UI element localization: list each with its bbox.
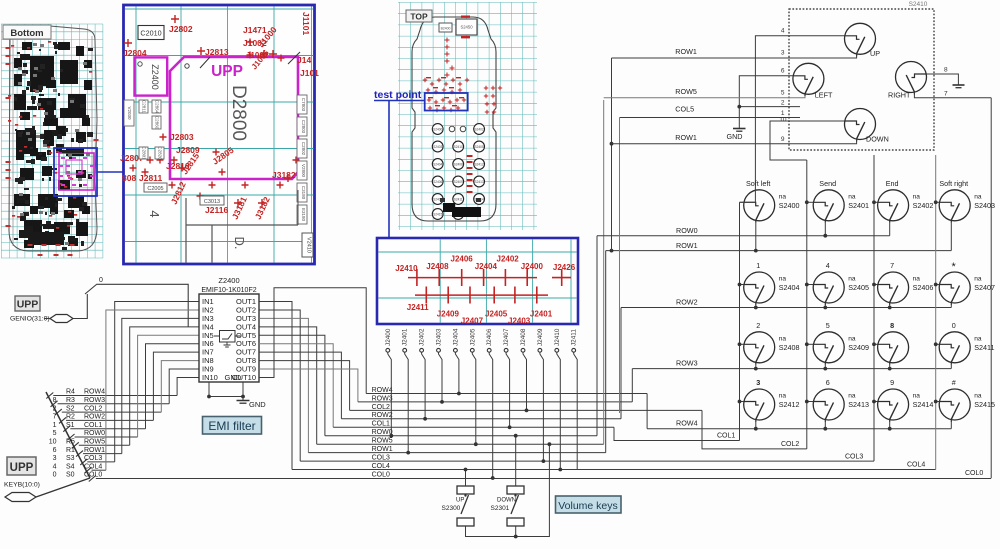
bus tap ROW5 (72, 442, 79, 448)
wire S2409 row stub (824, 365, 826, 369)
wire OUT7 to ROW2 (259, 352, 341, 419)
svg-text:D2800: D2800 (228, 85, 249, 141)
switch S2410r RIGHT (896, 62, 927, 95)
test point crosses bottom row (415, 294, 548, 296)
svg-text:8: 8 (890, 321, 894, 330)
test pad label J2802 (171, 15, 179, 23)
wire COL3 from bus (87, 461, 114, 463)
PCB highlighted zoom area blue box (54, 148, 97, 196)
svg-text:5: 5 (826, 321, 830, 330)
detail box teal grid (379, 240, 577, 323)
svg-text:COL0: COL0 (84, 472, 102, 479)
svg-text:UPP: UPP (17, 299, 39, 311)
switch S2410d DOWN (845, 109, 876, 142)
wire IN7 riser (153, 352, 199, 420)
wire S2405 column tap (807, 284, 813, 286)
svg-text:S2405: S2405 (474, 145, 483, 149)
switch S2402 End (878, 190, 909, 223)
wire pin7 COL0 (914, 92, 991, 98)
svg-text:ROW4: ROW4 (84, 389, 105, 396)
switch S2300 volume up (457, 486, 474, 494)
magnified view teal grid (125, 7, 314, 263)
svg-text:ROW3: ROW3 (372, 395, 393, 402)
svg-text:S2415: S2415 (974, 400, 995, 409)
wire pin6 to GND branch (739, 76, 793, 129)
wire COL3 column vertical (873, 155, 875, 461)
wire S2402 row stub (889, 223, 891, 236)
wire ROW3 from bus (58, 403, 170, 405)
PCB footprints (8, 41, 93, 250)
wire S2401 column tap (807, 201, 813, 203)
svg-text:B2400: B2400 (441, 27, 451, 31)
bus tap ROW4 (46, 393, 53, 399)
wire pin2 (739, 106, 800, 108)
ground symbol right (953, 84, 965, 86)
svg-text:C2802: C2802 (301, 142, 306, 156)
svg-text:S2403: S2403 (974, 201, 995, 210)
svg-text:3: 3 (53, 455, 57, 462)
svg-text:na: na (779, 276, 787, 283)
wire IN5 riser (138, 335, 199, 437)
wire COL2 jog (702, 410, 807, 449)
wire pin4 COL1 top (740, 36, 845, 203)
magnified PCB view box (124, 5, 315, 264)
svg-text:0: 0 (99, 277, 103, 284)
svg-text:S2413: S2413 (474, 180, 483, 184)
TOP label (406, 10, 432, 22)
Volume keys label (556, 496, 622, 513)
wire IN4 riser (130, 327, 199, 445)
bus tap COL2 (55, 409, 62, 415)
J14 arrow (288, 52, 300, 64)
svg-text:3: 3 (781, 50, 785, 57)
svg-text:2: 2 (53, 405, 57, 412)
svg-text:J2403: J2403 (508, 316, 531, 325)
svg-text:J2409: J2409 (537, 328, 544, 346)
svg-text:COL4: COL4 (372, 463, 390, 470)
wire IN3 riser (122, 318, 199, 453)
svg-text:ROW5: ROW5 (372, 438, 393, 445)
svg-text:S2412: S2412 (474, 162, 483, 166)
wire OUT5 to ROW0 (259, 335, 325, 435)
wire S2411 column tap (936, 343, 940, 345)
bus tap COL3 (80, 459, 87, 465)
svg-text:ROW0: ROW0 (676, 226, 698, 235)
wire IN1 riser (115, 302, 199, 462)
svg-text:J2400: J2400 (385, 328, 392, 346)
svg-text:na: na (779, 335, 787, 342)
test pad label J2804 (124, 39, 132, 47)
crosses row middle (147, 157, 154, 164)
svg-text:na: na (974, 193, 982, 200)
svg-text:808: 808 (122, 173, 136, 183)
PCB red marks (6, 47, 11, 49)
switch S2301 volume down (507, 486, 524, 494)
wire OUT10 to ROW4 (259, 288, 366, 394)
zoom connector line (97, 171, 123, 173)
wire S2409 column tap (807, 343, 813, 345)
junction ROW1 pins (610, 249, 614, 253)
svg-text:S4: S4 (66, 463, 75, 470)
wire volume common (466, 444, 550, 536)
svg-text:S2410: S2410 (909, 1, 928, 8)
bus tap ROW0 (68, 434, 75, 440)
svg-text:J2426: J2426 (553, 263, 576, 272)
svg-text:GND: GND (727, 132, 743, 141)
ground symbol joystick (733, 128, 746, 130)
test pad label J2813 (197, 47, 205, 55)
svg-text:C2803: C2803 (301, 120, 306, 134)
wire pin5 ROW5 (604, 96, 805, 98)
svg-text:na: na (974, 335, 982, 342)
svg-text:COL2: COL2 (781, 441, 799, 448)
red test point cluster top view (423, 38, 502, 115)
KEYB bus symbol (5, 493, 36, 502)
wire IN9 riser (169, 369, 199, 404)
wire IN2 riser (106, 310, 199, 470)
svg-text:S2: S2 (66, 405, 75, 412)
svg-text:J2411: J2411 (571, 329, 578, 346)
UPP label 1 (15, 296, 40, 311)
PCB magenta highlight box (59, 153, 94, 190)
svg-text:C3013: C3013 (204, 199, 220, 205)
test point crosses top row (408, 277, 537, 279)
wire S2401 row stub (824, 223, 826, 236)
svg-text:D.: D. (232, 237, 247, 250)
svg-text:J2407: J2407 (503, 328, 510, 346)
wire COL1 jog (614, 427, 740, 440)
wire COL4 column vertical (935, 155, 937, 470)
svg-text:2: 2 (781, 100, 785, 107)
switch S2409 5 (813, 332, 844, 365)
svg-text:6: 6 (826, 378, 830, 387)
bus tap COL0 (89, 476, 96, 482)
svg-text:4: 4 (826, 261, 830, 270)
svg-text:ROW2: ROW2 (676, 298, 698, 307)
UPP region magenta outline (170, 57, 298, 179)
wire ROW1 top riser (611, 58, 613, 251)
svg-text:COL3: COL3 (84, 455, 102, 462)
test point small blue box (425, 93, 468, 111)
svg-text:J2402: J2402 (419, 328, 426, 346)
net line ROW2 lower (341, 418, 621, 420)
Bottom label (3, 25, 51, 39)
svg-text:S2413: S2413 (848, 400, 869, 409)
svg-text:3: 3 (756, 378, 760, 387)
svg-text:S2301: S2301 (491, 505, 510, 512)
switch S2408 2 (744, 332, 775, 365)
svg-text:na: na (974, 276, 982, 283)
wire COL4 from bus (92, 469, 106, 471)
svg-text:R4: R4 (66, 389, 75, 396)
svg-text:ROW0: ROW0 (84, 430, 105, 437)
svg-text:7: 7 (53, 414, 57, 421)
wire COL0 from bus (96, 478, 991, 480)
svg-text:R3: R3 (66, 397, 75, 404)
wire OUT3 to ROW1 (259, 318, 308, 452)
wire COL5 riser (619, 118, 621, 414)
switch S2410u UP (845, 23, 876, 56)
wire ROW5 riser to joystick (603, 100, 605, 444)
svg-text:na: na (974, 393, 982, 400)
wire pin9 ROW1 lower (612, 139, 857, 144)
component Z2400 magenta box (135, 57, 168, 95)
svg-text:EMI filter: EMI filter (208, 419, 255, 433)
switch S2413 6 (813, 389, 844, 422)
svg-text:Send: Send (819, 179, 836, 188)
svg-text:J2116: J2116 (205, 205, 228, 215)
switch S2405 4 (813, 272, 844, 305)
svg-text:J2400: J2400 (521, 262, 544, 271)
switch S2414 9 (878, 389, 909, 422)
svg-text:E3180: E3180 (301, 208, 306, 222)
wire OUT6 to COL1 (259, 344, 333, 428)
wire ROW0 riser to matrix (596, 236, 598, 436)
wire S2402 column tap (874, 201, 878, 203)
svg-text:COL1: COL1 (717, 433, 735, 440)
svg-text:J2410: J2410 (554, 328, 561, 346)
right edge component boxes (297, 95, 307, 114)
GENIO bus symbol (50, 315, 73, 323)
svg-text:ROW2: ROW2 (84, 414, 105, 421)
svg-text:UP: UP (870, 49, 880, 58)
bus tap ROW3 (51, 401, 58, 407)
wire S2412 column tap (740, 401, 744, 403)
net line ROW0 matrix (597, 235, 890, 237)
svg-text:S2409: S2409 (848, 343, 869, 352)
net line ROW4 lower (366, 393, 647, 395)
wire S2414 row stub (889, 422, 891, 429)
wire pin10 COL2 jog (770, 121, 845, 160)
svg-text:na: na (913, 193, 921, 200)
svg-text:S1: S1 (66, 422, 75, 429)
svg-text:UPP: UPP (10, 462, 34, 474)
svg-text:V2030: V2030 (127, 106, 132, 120)
svg-text:8: 8 (944, 67, 948, 74)
wire S2410 column tap (874, 343, 878, 345)
component V2410 box (302, 233, 313, 257)
svg-text:J2402: J2402 (497, 255, 520, 264)
wire OUT1 to COL4 (259, 302, 292, 470)
wire S2415 column tap (936, 401, 940, 403)
net line COL1 lower (333, 426, 614, 428)
wire volume down to ROW0 (515, 436, 517, 486)
svg-text:S2401: S2401 (848, 201, 869, 210)
svg-text:J3182: J3182 (272, 170, 296, 180)
svg-text:S2405: S2405 (848, 283, 869, 292)
net line COL4 lower (292, 469, 936, 471)
svg-text:J2408: J2408 (520, 328, 527, 346)
svg-text:na: na (848, 335, 856, 342)
bus tap ROW2 (59, 417, 66, 423)
svg-text:Z2400: Z2400 (150, 64, 160, 90)
wire ROW2 from bus (66, 419, 153, 421)
wire OUT4 to ROW5 (259, 327, 317, 444)
wire S2408 column tap (740, 343, 744, 345)
net line ROW0 lower (325, 435, 597, 437)
svg-text:J2411: J2411 (407, 303, 429, 312)
net line ROW2 matrix (621, 307, 951, 309)
svg-text:COL0: COL0 (965, 470, 983, 477)
svg-text:J2403: J2403 (436, 328, 443, 346)
UPP label 2 (7, 457, 36, 475)
wire S2410 row stub (889, 365, 891, 369)
svg-text:C2864: C2864 (155, 100, 160, 114)
magnified view dark structural lines (185, 198, 187, 263)
filter symbol inside chip (220, 331, 236, 343)
net line COL3 lower (300, 460, 874, 462)
svg-text:S2407: S2407 (974, 283, 995, 292)
test point detail box (377, 238, 578, 324)
svg-text:J2401: J2401 (402, 328, 409, 346)
svg-text:6: 6 (53, 447, 57, 454)
svg-text:S2414: S2414 (913, 400, 934, 409)
component B2400 box (439, 23, 452, 32)
component S2450 box (456, 19, 477, 35)
wire OUT2 to COL3 (259, 310, 300, 461)
small component boxes left column (124, 100, 134, 126)
svg-text:S2411: S2411 (454, 197, 463, 201)
wire IN6 riser (146, 344, 200, 429)
svg-text:KEYB(10:0): KEYB(10:0) (4, 482, 40, 489)
svg-text:DOWN: DOWN (866, 135, 889, 144)
svg-text:5: 5 (781, 90, 785, 97)
svg-text:7: 7 (944, 91, 948, 98)
wire OUT9 to ROW3 (259, 369, 358, 402)
svg-text:5: 5 (53, 430, 57, 437)
net line ROW3 lower (358, 401, 632, 403)
svg-text:S2411: S2411 (974, 343, 994, 352)
wire ROW3 riser to matrix (631, 369, 633, 402)
svg-text:na: na (848, 193, 856, 200)
GENIO wire to COL5 (73, 294, 87, 319)
svg-text:C2005: C2005 (147, 186, 163, 192)
svg-text:ROW5: ROW5 (84, 439, 105, 446)
svg-text:4: 4 (781, 28, 785, 35)
KEYB bus line (46, 392, 90, 478)
bottom connector footprint (443, 203, 455, 212)
switch S2406 7 (878, 272, 909, 305)
bus tap COL4 (85, 467, 92, 473)
wire S2408 row stub (755, 365, 757, 369)
svg-text:na: na (779, 193, 787, 200)
switch S2407 * (939, 272, 970, 305)
net line ROW4 matrix (647, 428, 951, 430)
svg-text:S2400: S2400 (779, 201, 800, 210)
svg-text:J2406: J2406 (451, 255, 474, 264)
svg-text:7: 7 (890, 261, 894, 270)
svg-text:COL0: COL0 (372, 471, 390, 478)
net line COL2 lower (350, 409, 702, 411)
svg-text:ROW1: ROW1 (84, 447, 105, 454)
svg-text:COL3: COL3 (372, 455, 390, 462)
svg-text:J2802: J2802 (169, 24, 193, 34)
svg-text:IN10: IN10 (202, 373, 218, 382)
svg-text:0: 0 (952, 321, 956, 330)
svg-text:COL2: COL2 (84, 405, 102, 412)
svg-text:1: 1 (756, 261, 760, 270)
PCB board outline (9, 26, 97, 251)
wire S2403 row stub (950, 223, 952, 251)
net line ROW1 matrix (606, 250, 952, 252)
switch S2415 # (939, 389, 970, 422)
component C2010 box (138, 26, 164, 40)
switch S2410 8 (878, 332, 909, 365)
wire S2400 column tap (740, 201, 744, 203)
svg-text:na: na (779, 393, 787, 400)
svg-text:J2405: J2405 (485, 310, 508, 319)
svg-text:S2408: S2408 (454, 162, 463, 166)
svg-text:2: 2 (756, 321, 760, 330)
svg-text:COL4: COL4 (907, 462, 925, 469)
svg-text:na: na (913, 276, 921, 283)
svg-text:EMIF10-1K010F2: EMIF10-1K010F2 (201, 287, 256, 294)
svg-text:RIGHT: RIGHT (888, 91, 911, 100)
wire S2413 row stub (824, 422, 826, 429)
svg-text:S2403: S2403 (433, 145, 442, 149)
svg-text:J2803: J2803 (170, 132, 194, 142)
svg-text:6: 6 (781, 68, 785, 75)
svg-text:J2811: J2811 (139, 173, 162, 183)
svg-text:C2860: C2860 (155, 116, 160, 130)
wire S2406 row stub (889, 305, 891, 308)
bus tap ROW1 (76, 451, 83, 457)
switch S2410l LEFT (793, 63, 824, 96)
wire S2404 column tap (740, 284, 744, 286)
svg-text:S2402: S2402 (913, 201, 934, 210)
svg-text:COL3: COL3 (845, 453, 863, 460)
svg-text:J2804: J2804 (123, 48, 147, 58)
wire OUT8 to COL2 (259, 361, 350, 411)
svg-text:End: End (886, 179, 899, 188)
component C2005 box (144, 183, 167, 192)
wire S2406 column tap (874, 284, 878, 286)
chip ground wires (209, 382, 243, 397)
svg-text:test point: test point (374, 89, 422, 101)
svg-text:S0: S0 (66, 472, 75, 479)
wire ROW0 from bus (75, 436, 138, 438)
svg-text:S2408: S2408 (779, 343, 800, 352)
svg-text:8: 8 (53, 397, 57, 404)
switch S2403 Soft right (939, 190, 970, 223)
svg-text:S2450: S2450 (460, 25, 473, 30)
svg-text:J2406: J2406 (486, 328, 493, 346)
svg-text:J2404: J2404 (452, 328, 459, 346)
wire S2411 row stub (950, 365, 952, 369)
wire ROW1 from bus (83, 453, 122, 455)
net line ROW5 lower (317, 443, 604, 445)
svg-text:0: 0 (53, 472, 57, 479)
bus tap COL1 (63, 426, 70, 432)
svg-text:4: 4 (53, 463, 57, 470)
wire IN10 riser (177, 377, 199, 395)
svg-text:COL1: COL1 (84, 422, 102, 429)
svg-text:S2406: S2406 (433, 180, 442, 184)
svg-text:J1101: J1101 (301, 12, 311, 35)
svg-text:4: 4 (147, 210, 162, 217)
wire S2412 row stub (755, 422, 757, 429)
switch S2412 3 (744, 389, 775, 422)
svg-text:J2409: J2409 (437, 310, 460, 319)
wire COL0 right edge vertical (990, 98, 992, 478)
phone top view teal grid (398, 2, 537, 230)
svg-text:C2801: C2801 (142, 146, 147, 160)
svg-text:J2407: J2407 (461, 316, 484, 325)
svg-text:Volume keys: Volume keys (558, 500, 618, 512)
svg-text:Soft right: Soft right (939, 179, 968, 188)
svg-text:COL2: COL2 (372, 404, 390, 411)
svg-text:10: 10 (49, 439, 57, 446)
